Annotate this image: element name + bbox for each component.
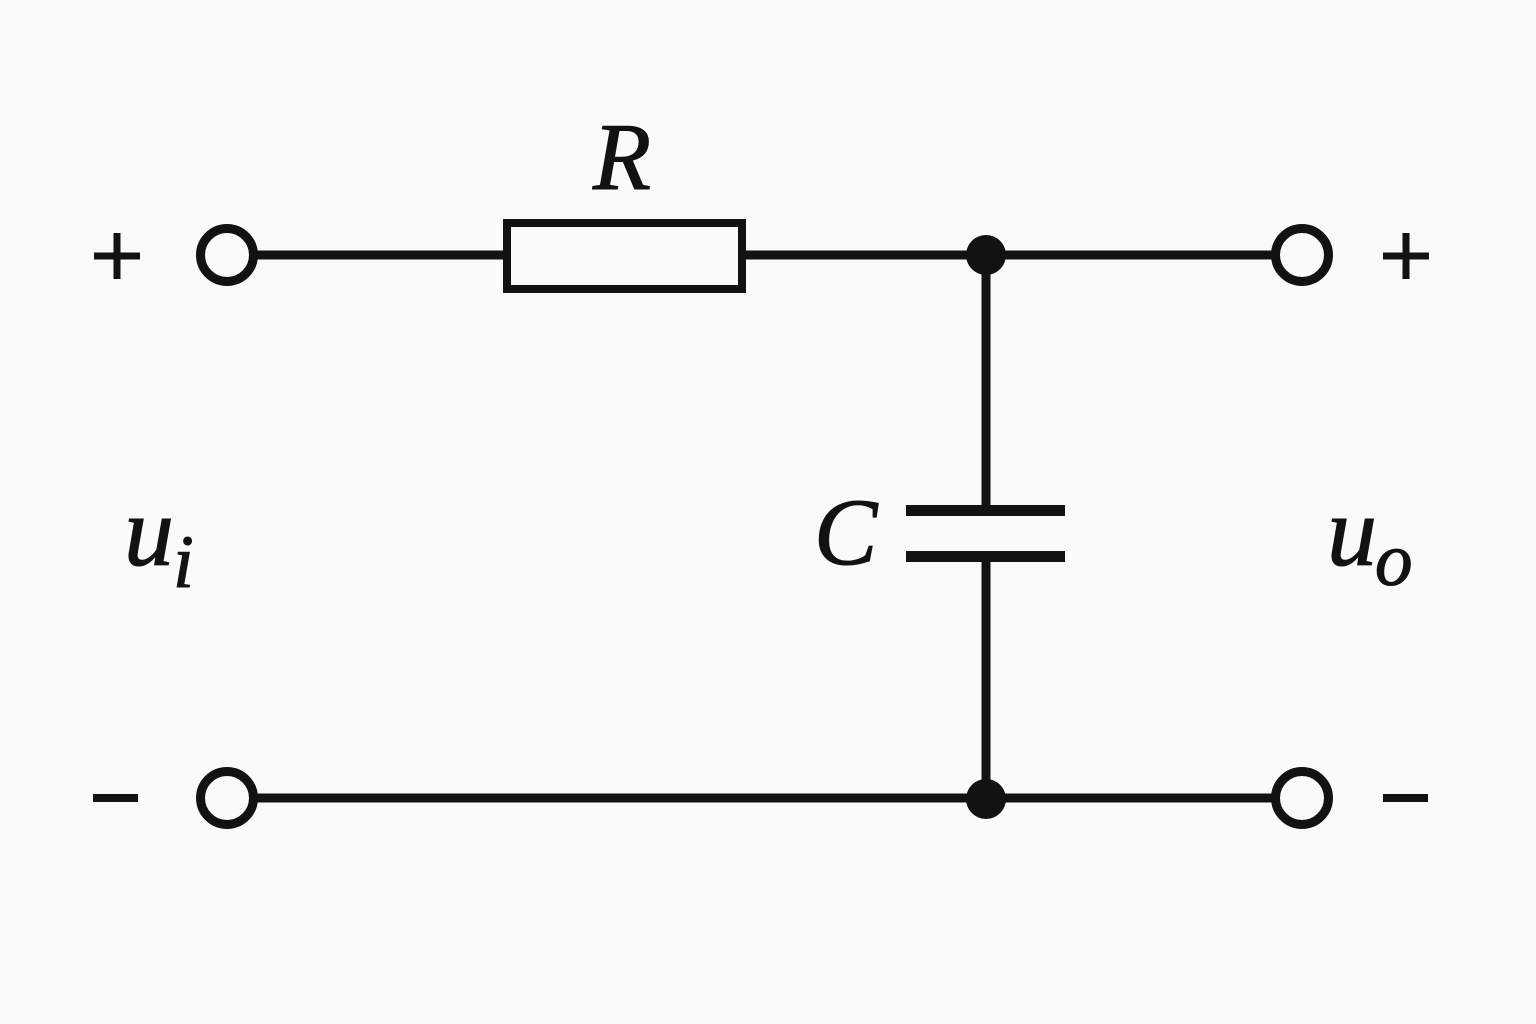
svg-text:i: i (173, 521, 194, 604)
svg-text:u: u (1327, 476, 1377, 587)
svg-text:C: C (814, 479, 879, 585)
svg-text:u: u (124, 476, 174, 587)
svg-text:o: o (1375, 519, 1413, 602)
svg-text:R: R (592, 104, 651, 210)
